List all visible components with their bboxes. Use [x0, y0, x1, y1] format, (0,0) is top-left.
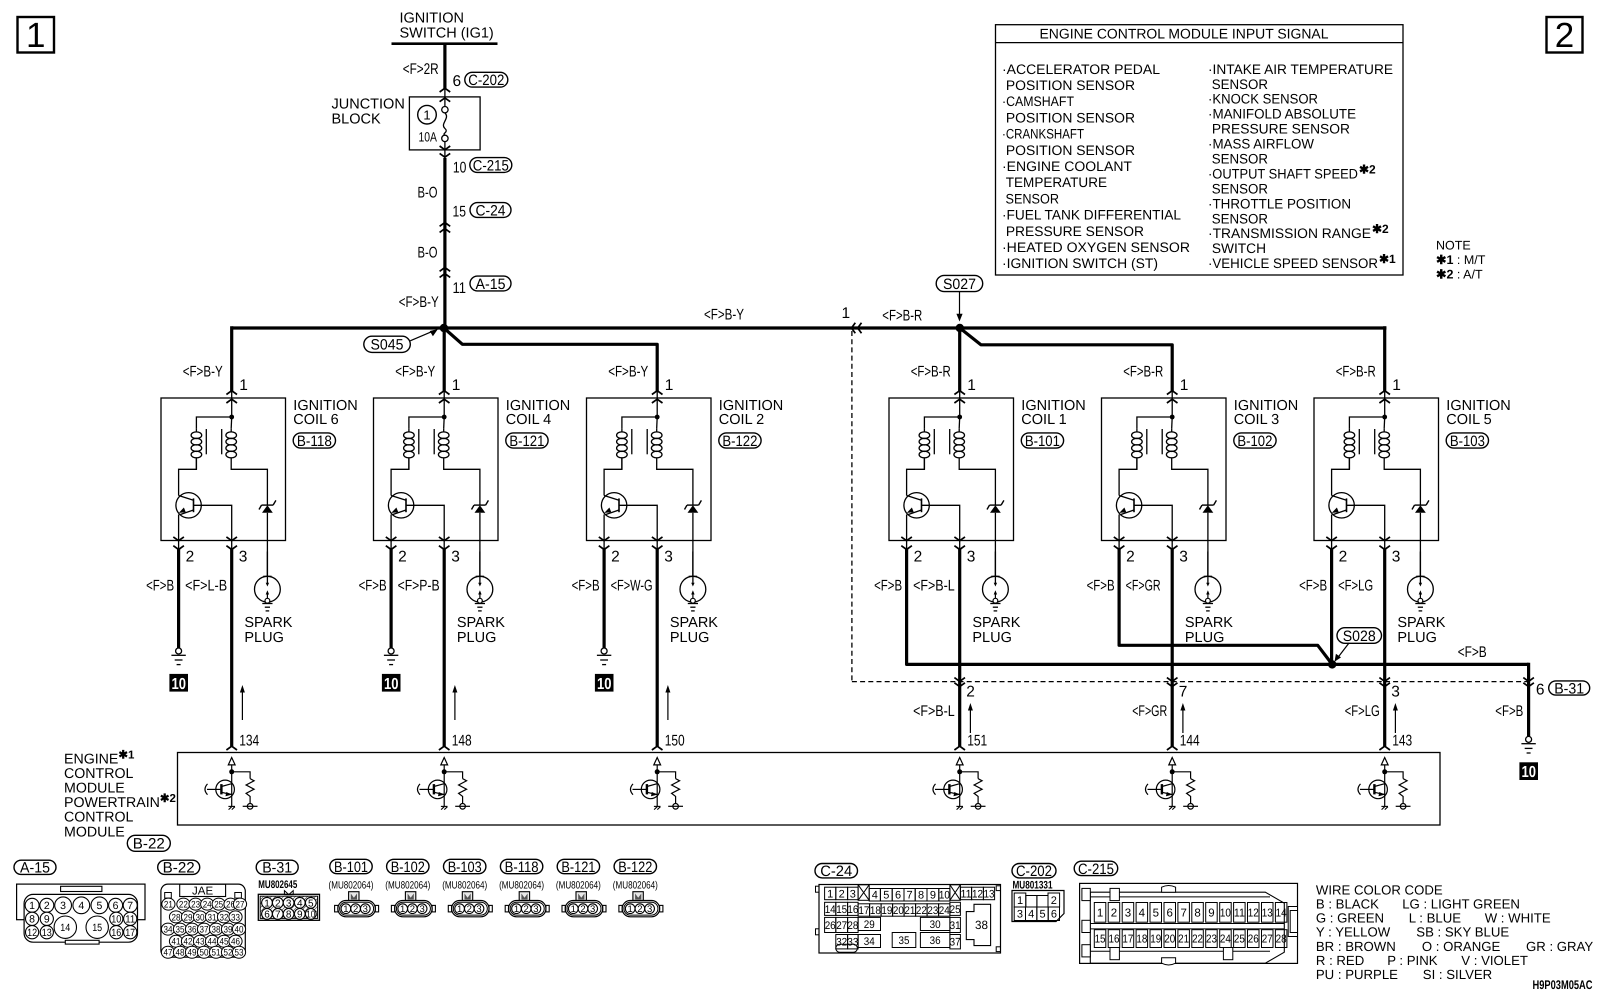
- svg-text:51: 51: [212, 948, 221, 959]
- svg-text:26: 26: [1248, 934, 1259, 946]
- svg-text:15: 15: [453, 204, 467, 221]
- svg-text:3: 3: [967, 549, 976, 566]
- svg-text:1: 1: [967, 377, 976, 394]
- svg-text:SENSOR: SENSOR: [1208, 181, 1268, 196]
- connector C-202 cells: [1014, 893, 1026, 907]
- svg-text:5: 5: [96, 900, 102, 912]
- connector A-15 housing: [17, 884, 145, 920]
- connector oval B-122: [719, 433, 761, 448]
- svg-text:·MANIFOLD ABSOLUTE: ·MANIFOLD ABSOLUTE: [1208, 107, 1356, 122]
- connector chevron at ECM pin 148: [439, 746, 450, 750]
- svg-text:17: 17: [1122, 934, 1133, 946]
- svg-text:SENSOR: SENSOR: [1208, 211, 1268, 226]
- svg-text:1: 1: [1097, 907, 1103, 919]
- svg-text:6: 6: [1536, 682, 1545, 699]
- connector 1 pass-through chevrons: [852, 323, 856, 334]
- C-24 crossed blank cell: [950, 885, 961, 901]
- coil 1 pin 2 wire to F-B bus: [906, 541, 908, 550]
- svg-text:3: 3: [1391, 684, 1400, 701]
- svg-text:(MU802064): (MU802064): [613, 879, 658, 891]
- wire B-31 ground drop: [1527, 663, 1530, 737]
- svg-text:12: 12: [972, 888, 983, 900]
- coil 4 spark plug: [467, 552, 493, 611]
- svg-text:9: 9: [930, 890, 936, 902]
- svg-text:SPARK: SPARK: [244, 615, 292, 631]
- connector B-101 body: [335, 892, 379, 917]
- svg-text:50: 50: [200, 948, 209, 959]
- splice S028 junction dot: [1328, 660, 1336, 668]
- connector A-15 pins: [25, 898, 39, 912]
- connector chevrons where pin wire crosses B-31 boundary at x=1172.2: [1167, 678, 1178, 682]
- C-24 crossed blank cell: [858, 885, 869, 901]
- svg-text:COIL 3: COIL 3: [1234, 412, 1279, 428]
- svg-text:<F>B: <F>B: [359, 578, 387, 595]
- connector B-31 label oval: [256, 860, 298, 874]
- svg-text:BR : BROWN: BR : BROWN: [1316, 939, 1396, 954]
- svg-text:PLUG: PLUG: [670, 630, 710, 646]
- splice S027 oval: [936, 275, 983, 291]
- connector oval B-101: [1021, 433, 1063, 448]
- svg-text:<F>B-Y: <F>B-Y: [395, 364, 435, 381]
- signal direction arrow at ECM pin 134: [241, 690, 243, 720]
- wire bus corner down to ignition coil 6 pin 1: [230, 326, 233, 391]
- coil 6 spark plug: [255, 552, 281, 611]
- svg-text:·MASS AIRFLOW: ·MASS AIRFLOW: [1208, 137, 1314, 152]
- connector C-24 housing: [819, 885, 1001, 954]
- svg-text:POSITION SENSOR: POSITION SENSOR: [1002, 143, 1135, 158]
- ground for coil 2: [595, 648, 614, 693]
- svg-text:4: 4: [1139, 907, 1146, 919]
- svg-text:·CRANKSHAFT: ·CRANKSHAFT: [1002, 127, 1084, 142]
- svg-text:13: 13: [1262, 907, 1273, 919]
- svg-text:29: 29: [184, 912, 193, 923]
- svg-text:COIL 5: COIL 5: [1446, 412, 1491, 428]
- connector chevrons where pin wire crosses B-31 boundary at x=959.7: [954, 678, 965, 682]
- svg-text:15: 15: [1095, 934, 1106, 946]
- svg-text:ENGINE CONTROL MODULE INPUT SI: ENGINE CONTROL MODULE INPUT SIGNAL: [1040, 26, 1329, 42]
- svg-text:·FUEL TANK DIFFERENTIAL: ·FUEL TANK DIFFERENTIAL: [1002, 208, 1181, 223]
- svg-text:4: 4: [297, 898, 303, 909]
- signal direction arrow at ECM pin 144: [1182, 708, 1184, 733]
- svg-text:SPARK: SPARK: [1185, 615, 1233, 631]
- wire bus down to ignition coil 4 pin 1: [443, 328, 446, 391]
- svg-text:4: 4: [1028, 909, 1034, 921]
- connector chevrons on B-31 wire: [1523, 678, 1534, 682]
- svg-text:2: 2: [1555, 16, 1574, 55]
- svg-text:33: 33: [231, 912, 240, 923]
- svg-text:24: 24: [203, 900, 212, 911]
- svg-text:·VEHICLE SPEED SENSOR: ·VEHICLE SPEED SENSOR: [1208, 256, 1378, 271]
- coil 4 pin 2 ground wire: [390, 541, 392, 550]
- connector B-101 label oval: [330, 859, 372, 873]
- svg-text:<F>B-Y: <F>B-Y: [704, 307, 744, 324]
- connector oval B-103: [1446, 433, 1488, 448]
- svg-text:2: 2: [839, 888, 845, 900]
- svg-text:MODULE: MODULE: [64, 824, 125, 840]
- svg-text:17: 17: [125, 927, 135, 939]
- svg-text:B-118: B-118: [297, 433, 332, 450]
- coil 2 pin 3 wire to ECM pin 150: [656, 541, 658, 550]
- coil 2 pin 2 ground wire: [603, 541, 605, 550]
- ignition coil 3 (B-102): [1102, 391, 1227, 550]
- svg-text:B-118: B-118: [505, 859, 539, 876]
- dashed M/T wire vertical: [851, 331, 853, 682]
- svg-text:SB : SKY BLUE: SB : SKY BLUE: [1416, 925, 1509, 940]
- svg-text:34: 34: [164, 925, 173, 936]
- ignition switch bus bar: [392, 42, 498, 45]
- main B-Y / B-R bus: [232, 326, 1387, 329]
- svg-text:<F>2R: <F>2R: [403, 61, 439, 78]
- svg-text:<F>LG: <F>LG: [1338, 578, 1373, 595]
- svg-text:40: 40: [235, 925, 244, 936]
- svg-text:POWERTRAIN✱2: POWERTRAIN✱2: [64, 793, 176, 811]
- svg-text:SPARK: SPARK: [670, 615, 718, 631]
- svg-text:<F>B: <F>B: [1495, 703, 1523, 720]
- connector chevron at ECM pin 151: [954, 746, 965, 750]
- svg-text:36: 36: [930, 935, 941, 947]
- svg-text:6: 6: [1051, 909, 1057, 921]
- splice S027 arrow: [959, 292, 961, 316]
- connector C-202 label oval: [1012, 864, 1056, 878]
- svg-text:17: 17: [858, 905, 869, 917]
- svg-text:10: 10: [939, 890, 950, 902]
- svg-text:(MU802064): (MU802064): [499, 879, 544, 891]
- svg-text:10: 10: [111, 914, 121, 926]
- svg-text:GR : GRAY: GR : GRAY: [1526, 939, 1593, 954]
- svg-text:<F>GR: <F>GR: [1132, 703, 1167, 720]
- svg-text:<F>B-R: <F>B-R: [911, 364, 951, 381]
- splice S045 junction dot: [440, 324, 448, 332]
- svg-text:✱1 : M/T: ✱1 : M/T: [1436, 253, 1486, 267]
- svg-text:28: 28: [847, 920, 858, 932]
- svg-text:P : PINK: P : PINK: [1387, 953, 1438, 968]
- svg-text:B-22: B-22: [133, 836, 165, 853]
- svg-text:7: 7: [127, 900, 133, 912]
- splice S045 arrow: [410, 331, 434, 341]
- svg-text:<F>B: <F>B: [572, 578, 600, 595]
- svg-text:37: 37: [950, 937, 961, 949]
- engine control module box: [178, 753, 1441, 826]
- svg-text:PRESSURE SENSOR: PRESSURE SENSOR: [1002, 224, 1144, 239]
- engine control module input signal box: [996, 25, 1404, 275]
- svg-text:1: 1: [1017, 895, 1023, 907]
- dashed M/T wire horizontal: [852, 681, 1529, 683]
- svg-text:SI : SILVER: SI : SILVER: [1423, 967, 1492, 982]
- svg-text:2: 2: [1126, 549, 1135, 566]
- svg-text:10: 10: [306, 910, 315, 921]
- svg-text:2: 2: [275, 898, 281, 909]
- coil 5 spark plug wire: [1419, 541, 1421, 577]
- svg-text:25: 25: [214, 900, 223, 911]
- svg-text:B-122: B-122: [722, 433, 757, 450]
- connector B-103 body: [448, 892, 492, 917]
- svg-text:15: 15: [836, 904, 847, 916]
- page number box 2: [1547, 17, 1583, 53]
- svg-text:G : GREEN: G : GREEN: [1316, 911, 1384, 926]
- svg-text:6: 6: [895, 890, 901, 902]
- svg-text:SENSOR: SENSOR: [1208, 77, 1268, 92]
- svg-text:R : RED: R : RED: [1316, 953, 1364, 968]
- coil 2 spark plug wire: [692, 541, 694, 577]
- svg-text:47: 47: [164, 948, 173, 959]
- svg-text:19: 19: [881, 905, 892, 917]
- connector oval C-24: [470, 203, 511, 218]
- coil 3 spark plug: [1195, 552, 1221, 611]
- svg-text:COIL 1: COIL 1: [1021, 412, 1066, 428]
- wire bus corner down to ignition coil 5 pin 1: [1383, 326, 1386, 391]
- svg-text:3: 3: [1179, 549, 1188, 566]
- svg-text:16: 16: [1108, 934, 1119, 946]
- wire junction block to bus: [444, 142, 446, 159]
- svg-text:S027: S027: [943, 276, 976, 293]
- svg-text:18: 18: [870, 905, 881, 917]
- svg-text:<F>B-Y: <F>B-Y: [399, 294, 439, 311]
- svg-text:13: 13: [984, 888, 995, 900]
- svg-text:A-15: A-15: [476, 276, 506, 293]
- signal direction arrow at ECM pin 151: [969, 708, 971, 733]
- svg-text:30: 30: [196, 912, 205, 923]
- connector C-215 cells: [1094, 903, 1106, 923]
- svg-text:16: 16: [111, 927, 121, 939]
- svg-text:B-22: B-22: [163, 860, 195, 877]
- svg-text:COIL 6: COIL 6: [293, 412, 338, 428]
- svg-text:28: 28: [172, 912, 181, 923]
- connector oval A-15: [470, 276, 511, 291]
- svg-text:26: 26: [825, 920, 836, 932]
- svg-text:14: 14: [60, 922, 70, 934]
- svg-text:<F>LG: <F>LG: [1345, 703, 1380, 720]
- connector oval B-102: [1234, 433, 1276, 448]
- fuse symbol: [442, 107, 448, 113]
- connector B-122 body: [619, 892, 663, 917]
- svg-text:<F>B: <F>B: [146, 578, 174, 595]
- svg-text:1: 1: [665, 377, 674, 394]
- svg-text:W : WHITE: W : WHITE: [1485, 911, 1551, 926]
- svg-text:27: 27: [236, 900, 245, 911]
- svg-text:<F>L-B: <F>L-B: [185, 578, 227, 595]
- svg-text:8: 8: [29, 914, 35, 926]
- svg-text:23: 23: [927, 905, 938, 917]
- svg-text:32: 32: [220, 912, 229, 923]
- connector oval B-118: [293, 433, 335, 448]
- connector C-202 housing: [1012, 891, 1064, 922]
- svg-text:✱2 : A/T: ✱2 : A/T: [1436, 268, 1483, 282]
- signal direction arrow at ECM pin 150: [667, 690, 669, 720]
- svg-text:<F>B-R: <F>B-R: [1336, 364, 1376, 381]
- svg-text:32: 32: [836, 937, 847, 949]
- svg-text:<F>P-B: <F>P-B: [398, 578, 440, 595]
- svg-text:21: 21: [164, 900, 173, 911]
- svg-text:SENSOR: SENSOR: [1002, 191, 1059, 206]
- splice S027 junction dot: [956, 324, 964, 332]
- svg-text:1: 1: [423, 108, 430, 123]
- svg-text:·INTAKE AIR TEMPERATURE: ·INTAKE AIR TEMPERATURE: [1208, 62, 1393, 77]
- svg-text:16: 16: [847, 904, 858, 916]
- svg-text:134: 134: [239, 733, 259, 750]
- svg-text:SWITCH (IG1): SWITCH (IG1): [400, 26, 494, 42]
- svg-text:POSITION SENSOR: POSITION SENSOR: [1002, 110, 1135, 125]
- svg-text:B-121: B-121: [561, 859, 595, 876]
- svg-text:6: 6: [264, 910, 270, 921]
- connector chevrons C-24: [440, 223, 451, 227]
- svg-text:POSITION SENSOR: POSITION SENSOR: [1002, 78, 1135, 93]
- ECM driver transistor circuit at pin 144: [1146, 758, 1199, 810]
- svg-text:151: 151: [967, 733, 987, 750]
- svg-text:2: 2: [966, 684, 975, 701]
- svg-text:PLUG: PLUG: [1185, 630, 1225, 646]
- svg-text:B : BLACK: B : BLACK: [1316, 897, 1379, 912]
- svg-text:1: 1: [29, 900, 35, 912]
- connector C-215 housing: [1080, 883, 1298, 963]
- svg-text:2: 2: [398, 549, 407, 566]
- svg-text:49: 49: [188, 948, 197, 959]
- page number box 1: [18, 17, 55, 53]
- svg-text:37: 37: [200, 925, 209, 936]
- splice S028 oval: [1337, 628, 1382, 644]
- ground for coil 6: [169, 648, 188, 693]
- connector chevron at ECM pin 143: [1379, 746, 1390, 750]
- connector B-22 housing: [161, 884, 245, 957]
- connector C-24 label oval: [815, 864, 858, 878]
- connector B-122 label oval: [614, 859, 656, 873]
- svg-text:9: 9: [297, 910, 303, 921]
- svg-text:23: 23: [191, 900, 200, 911]
- svg-text:22: 22: [1192, 934, 1203, 946]
- connector chevron at ECM pin 150: [652, 746, 663, 750]
- svg-text:12: 12: [1248, 907, 1259, 919]
- svg-text:10: 10: [1220, 907, 1231, 919]
- svg-text:14: 14: [1276, 907, 1288, 919]
- svg-text:20: 20: [1164, 934, 1175, 946]
- svg-text:9: 9: [44, 914, 50, 926]
- svg-text:148: 148: [452, 733, 472, 750]
- svg-text:33: 33: [847, 937, 858, 949]
- svg-text:4: 4: [872, 890, 878, 902]
- connector B-118 body: [505, 892, 549, 917]
- svg-text:1: 1: [827, 888, 833, 900]
- svg-text:10A: 10A: [419, 130, 438, 145]
- svg-text:PLUG: PLUG: [972, 630, 1012, 646]
- svg-text:LG : LIGHT GREEN: LG : LIGHT GREEN: [1402, 897, 1520, 912]
- svg-text:B-101: B-101: [1025, 433, 1060, 450]
- svg-text:PU : PURPLE: PU : PURPLE: [1316, 967, 1398, 982]
- svg-text:✱2: ✱2: [1359, 162, 1376, 176]
- svg-text:25: 25: [950, 904, 961, 916]
- svg-text:3: 3: [850, 888, 856, 900]
- svg-text:SPARK: SPARK: [972, 615, 1020, 631]
- svg-text:5: 5: [883, 890, 889, 902]
- svg-text:B-103: B-103: [1450, 433, 1485, 450]
- connector chevron at ECM pin 144: [1167, 746, 1178, 750]
- connector oval C-215: [470, 158, 512, 173]
- C-24 cell 38: [966, 904, 990, 945]
- svg-text:21: 21: [1178, 934, 1189, 946]
- svg-text:<F>B: <F>B: [1087, 578, 1115, 595]
- ECM driver transistor circuit at pin 150: [631, 758, 684, 810]
- wire IG1 trunk from switch to junction block: [443, 44, 446, 89]
- svg-text:150: 150: [665, 733, 685, 750]
- svg-text:TEMPERATURE: TEMPERATURE: [1002, 175, 1107, 190]
- svg-text:1: 1: [1180, 377, 1189, 394]
- svg-text:✱2: ✱2: [1372, 222, 1389, 236]
- svg-text:1: 1: [239, 377, 248, 394]
- ground for coil 4: [382, 648, 401, 693]
- ignition coil 5 (B-103): [1314, 391, 1439, 550]
- svg-text:PRESSURE SENSOR: PRESSURE SENSOR: [1208, 122, 1350, 137]
- svg-text:29: 29: [864, 919, 875, 931]
- wire bus bent branch to ignition coil 2 pin 1: [444, 328, 657, 391]
- connector B-102 label oval: [387, 859, 429, 873]
- svg-text:3: 3: [60, 900, 66, 912]
- svg-text:38: 38: [975, 918, 988, 932]
- svg-text:5: 5: [308, 898, 314, 909]
- svg-text:·KNOCK SENSOR: ·KNOCK SENSOR: [1208, 92, 1318, 107]
- connector B-121 label oval: [557, 859, 599, 873]
- svg-text:<F>GR: <F>GR: [1126, 578, 1161, 595]
- svg-text:3: 3: [1392, 549, 1401, 566]
- svg-text:L : BLUE: L : BLUE: [1409, 911, 1461, 926]
- svg-text:MU802645: MU802645: [258, 879, 297, 891]
- svg-text:144: 144: [1180, 733, 1200, 750]
- svg-text:A-15: A-15: [20, 860, 50, 877]
- ignition coil 6 (B-118): [161, 391, 286, 550]
- svg-text:13: 13: [42, 927, 52, 939]
- connector A-15 label oval: [14, 860, 56, 874]
- wire bus down to ignition coil 1 pin 1: [958, 328, 961, 391]
- svg-text:6: 6: [113, 900, 119, 912]
- connector C-24 cells: [825, 887, 836, 900]
- svg-text:48: 48: [176, 948, 185, 959]
- svg-text:8: 8: [918, 890, 924, 902]
- svg-text:<F>B: <F>B: [1299, 578, 1327, 595]
- svg-text:6: 6: [453, 73, 462, 90]
- connector chevron C-202: [440, 88, 451, 92]
- svg-text:(MU802064): (MU802064): [442, 879, 487, 891]
- junction block box: [409, 97, 480, 150]
- svg-text:22: 22: [179, 900, 188, 911]
- svg-text:7: 7: [275, 910, 281, 921]
- svg-text:PLUG: PLUG: [244, 630, 284, 646]
- svg-text:B-103: B-103: [448, 859, 482, 876]
- connector chevrons where pin wire crosses B-31 boundary at x=1384.7: [1379, 678, 1390, 682]
- svg-text:B-O: B-O: [418, 185, 438, 202]
- svg-text:SWITCH: SWITCH: [1208, 241, 1266, 256]
- svg-text:11: 11: [1234, 907, 1245, 919]
- connector C-215 inner housing: [1090, 892, 1284, 963]
- svg-text:B-O: B-O: [418, 245, 438, 262]
- svg-text:B-102: B-102: [391, 859, 425, 876]
- svg-text:SPARK: SPARK: [1397, 615, 1445, 631]
- svg-text:1: 1: [452, 377, 461, 394]
- ECM driver transistor circuit at pin 148: [418, 758, 471, 810]
- svg-text:11: 11: [961, 888, 972, 900]
- svg-text:27: 27: [1262, 934, 1273, 946]
- svg-text:JUNCTION: JUNCTION: [332, 97, 405, 113]
- svg-text:(MU802064): (MU802064): [385, 879, 430, 891]
- ignition coil 2 (B-122): [587, 391, 712, 550]
- wire bus bent branch to ignition coil 3 pin 1: [960, 328, 1172, 391]
- svg-text:B-31: B-31: [1554, 680, 1584, 697]
- svg-text:·IGNITION SWITCH (ST): ·IGNITION SWITCH (ST): [1002, 256, 1158, 271]
- svg-text:<F>B-Y: <F>B-Y: [183, 364, 223, 381]
- coil 4 spark plug wire: [479, 541, 481, 577]
- svg-text:23: 23: [1206, 934, 1217, 946]
- svg-text:·OUTPUT SHAFT SPEED: ·OUTPUT SHAFT SPEED: [1208, 166, 1358, 181]
- svg-text:27: 27: [836, 920, 847, 932]
- svg-text:·TRANSMISSION RANGE: ·TRANSMISSION RANGE: [1208, 226, 1371, 241]
- svg-text:S045: S045: [371, 337, 404, 354]
- svg-text:4: 4: [78, 900, 84, 912]
